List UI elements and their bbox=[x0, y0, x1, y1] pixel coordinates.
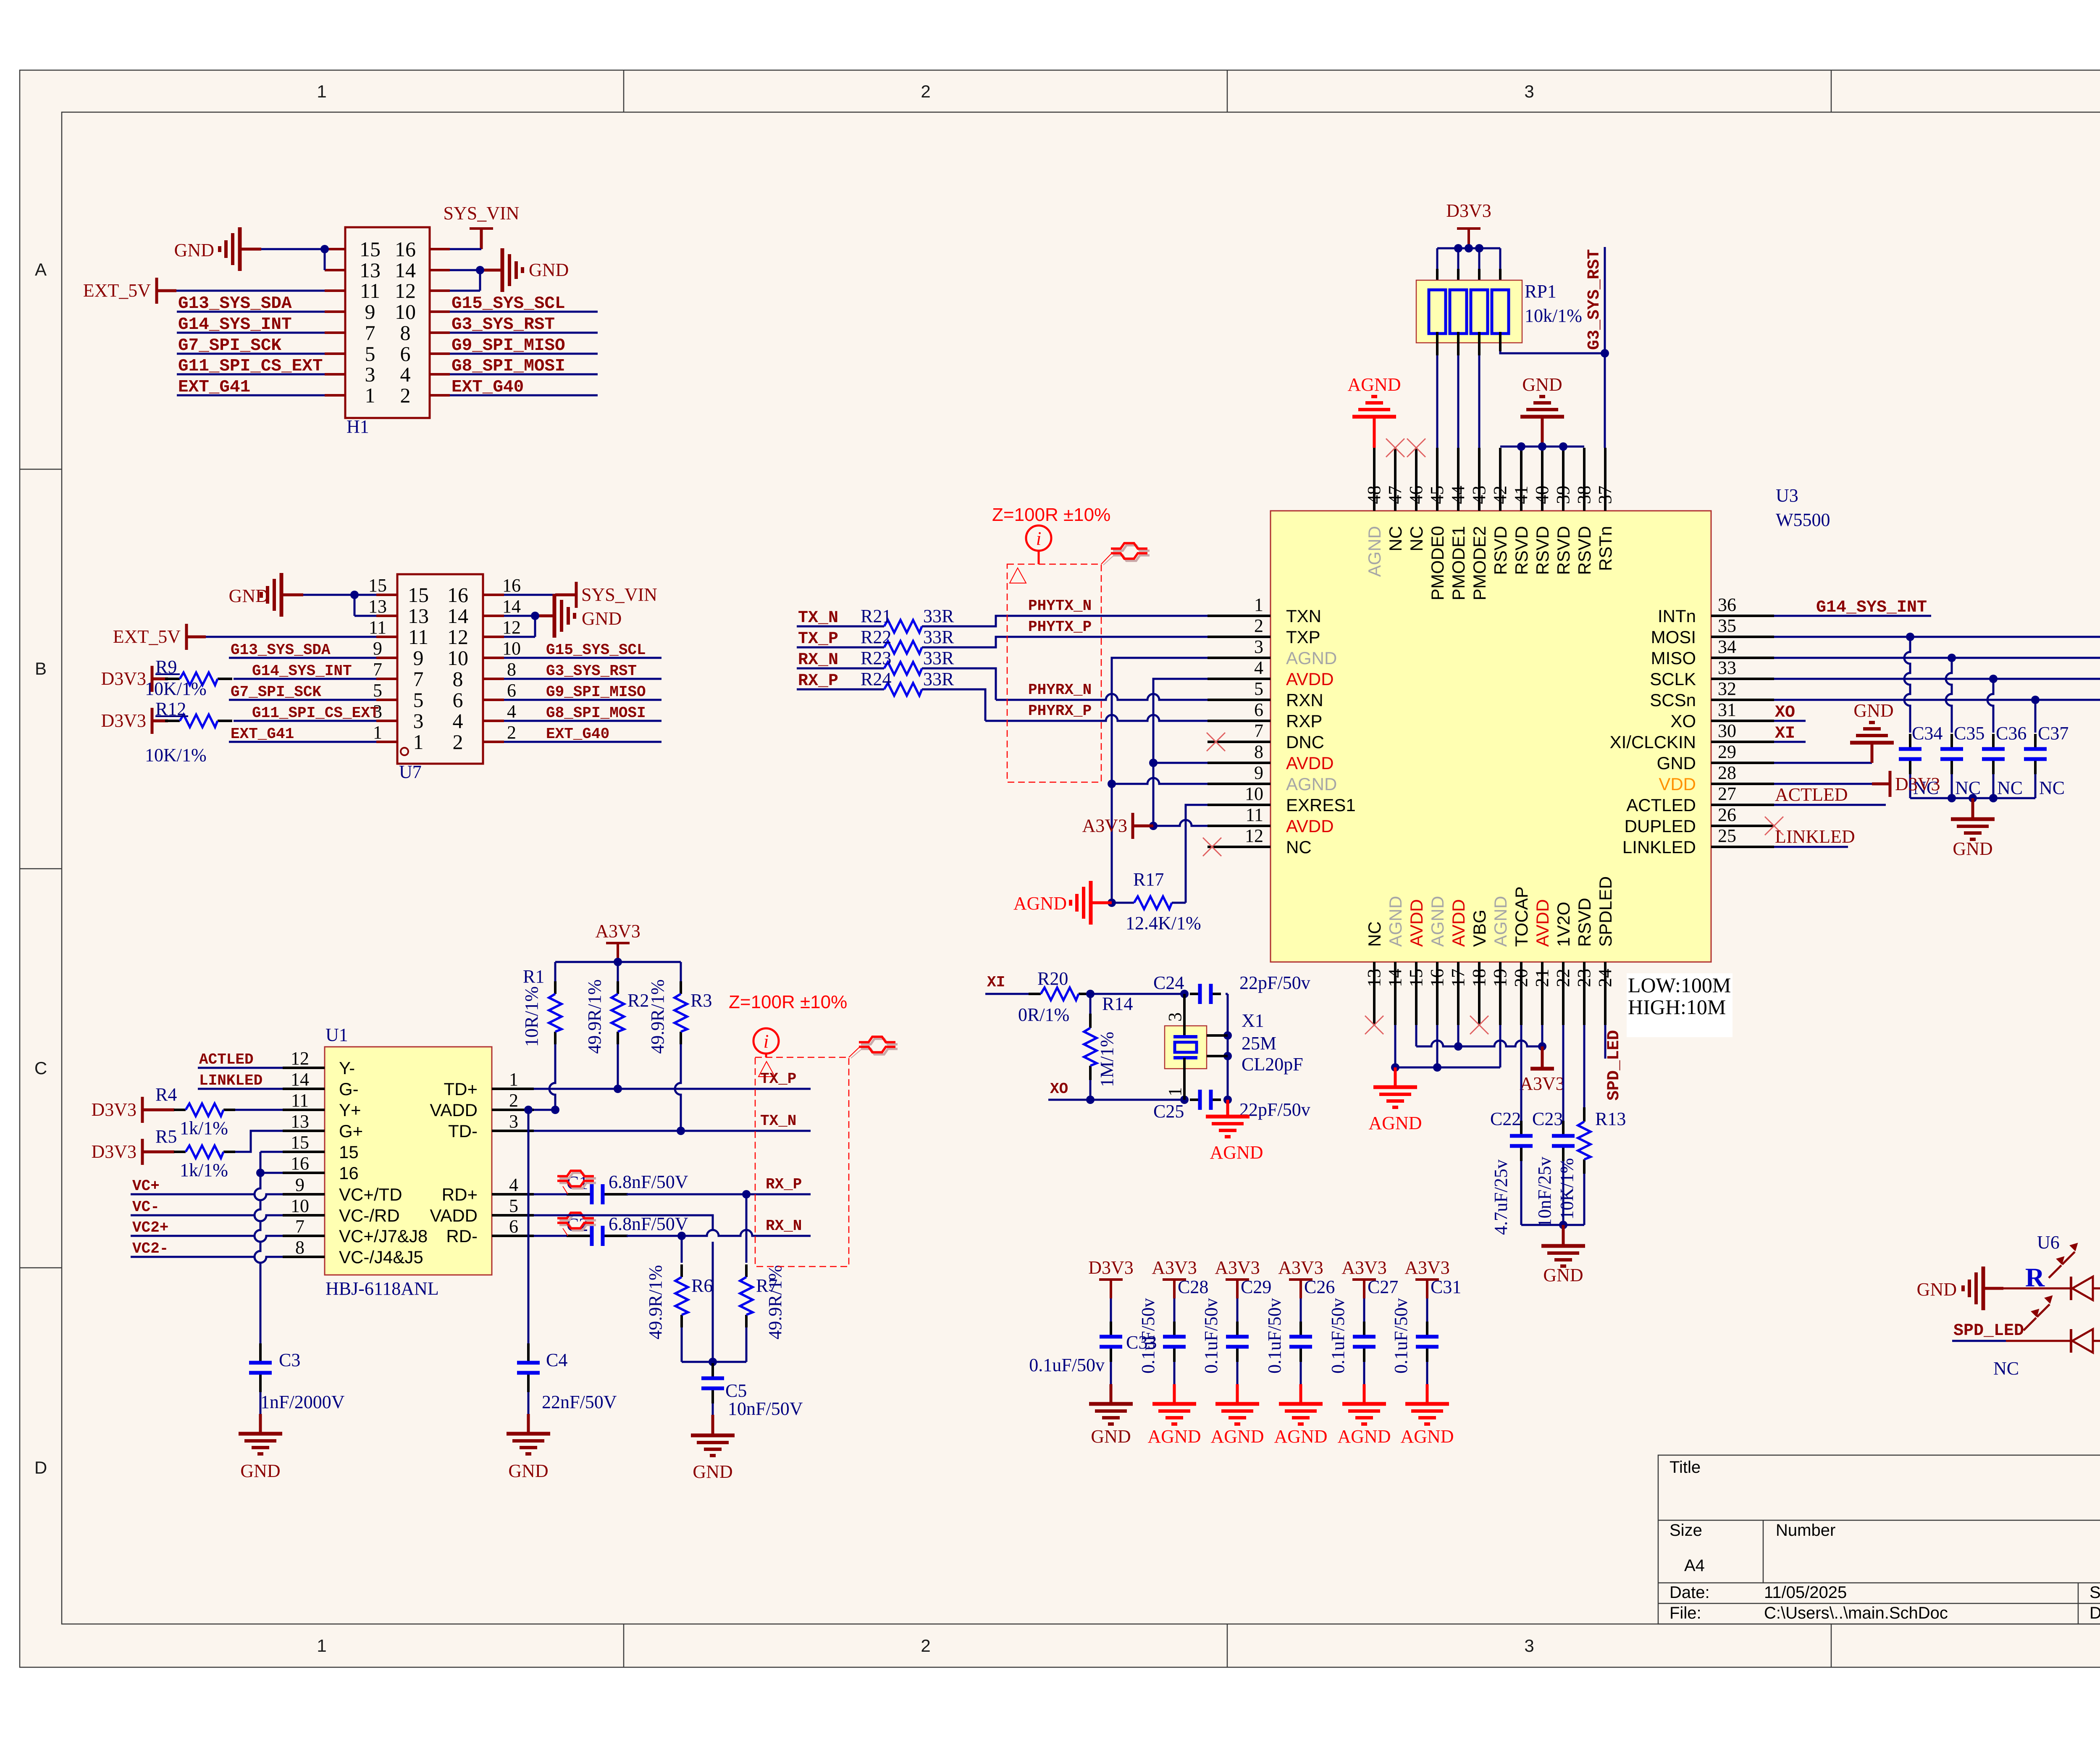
svg-text:G11_SPI_CS_EXT: G11_SPI_CS_EXT bbox=[252, 704, 379, 722]
svg-text:22pF/50v: 22pF/50v bbox=[1239, 1099, 1310, 1120]
svg-text:8: 8 bbox=[1254, 741, 1263, 762]
wire TD+ to TX_P bbox=[534, 1088, 811, 1090]
svg-text:Date:: Date: bbox=[1669, 1583, 1710, 1602]
svg-text:AGND: AGND bbox=[1365, 526, 1384, 577]
svg-text:EXT_G40: EXT_G40 bbox=[546, 725, 609, 743]
svg-text:42: 42 bbox=[1490, 486, 1510, 504]
svg-text:RSVD: RSVD bbox=[1512, 526, 1531, 575]
svg-text:AVDD: AVDD bbox=[1449, 899, 1468, 947]
svg-text:G13_SYS_SDA: G13_SYS_SDA bbox=[231, 641, 331, 659]
svg-text:4: 4 bbox=[453, 709, 463, 733]
svg-text:ACTLED: ACTLED bbox=[199, 1051, 254, 1068]
wire A3V3 bus bbox=[555, 961, 681, 963]
svg-text:C24: C24 bbox=[1153, 972, 1184, 993]
svg-text:R24: R24 bbox=[861, 669, 891, 689]
svg-text:22nF/50V: 22nF/50V bbox=[542, 1392, 617, 1412]
svg-text:GND: GND bbox=[1657, 753, 1696, 773]
resistor R23 33R bbox=[797, 667, 884, 670]
capacitor C31 0.1uF/50v bbox=[1426, 1298, 1428, 1322]
svg-text:TX_N: TX_N bbox=[760, 1112, 796, 1130]
svg-text:10: 10 bbox=[447, 646, 468, 670]
capacitor C33 0.1uF/50v bbox=[1110, 1298, 1112, 1322]
wire LED G anode to R16 bbox=[2093, 1340, 2100, 1342]
svg-text:TD+: TD+ bbox=[444, 1079, 478, 1099]
svg-text:4: 4 bbox=[1254, 657, 1263, 678]
svg-text:C3: C3 bbox=[279, 1350, 300, 1370]
svg-text:C23: C23 bbox=[1532, 1109, 1563, 1129]
svg-text:GND: GND bbox=[1853, 700, 1893, 721]
resistor network RP1 10k/1% bbox=[1416, 280, 1522, 343]
svg-text:AGND: AGND bbox=[1368, 1113, 1422, 1133]
svg-text:6: 6 bbox=[509, 1216, 518, 1237]
wire SCSn row to RP3 bbox=[1774, 699, 2100, 701]
svg-text:7: 7 bbox=[295, 1216, 304, 1237]
wire/net G15_SYS_SCL at U7 right bbox=[504, 657, 661, 659]
svg-text:13: 13 bbox=[1364, 969, 1384, 987]
svg-text:GND: GND bbox=[508, 1461, 548, 1481]
svg-text:NC: NC bbox=[1993, 1358, 2019, 1379]
svg-text:INTn: INTn bbox=[1658, 606, 1696, 626]
U3 bottom pins 13-24 bbox=[1373, 962, 1375, 1025]
svg-text:3: 3 bbox=[1165, 1012, 1185, 1022]
svg-text:R20: R20 bbox=[1037, 968, 1068, 989]
svg-text:C35: C35 bbox=[1954, 723, 1984, 744]
resistor R20 0R/1% bbox=[1029, 993, 1041, 995]
svg-text:AVDD: AVDD bbox=[1286, 816, 1334, 836]
IC U3 W5500 body bbox=[1270, 511, 1711, 962]
svg-text:27: 27 bbox=[1718, 783, 1736, 804]
svg-text:XO: XO bbox=[1670, 711, 1696, 731]
wire/net EXT_G41 at H1 bbox=[177, 394, 325, 397]
svg-text:RSVD: RSVD bbox=[1491, 526, 1510, 575]
svg-text:GND: GND bbox=[1522, 374, 1562, 395]
svg-text:GND: GND bbox=[1543, 1265, 1583, 1285]
net VC- at U1 pin10 bbox=[131, 1215, 283, 1221]
svg-text:10: 10 bbox=[1245, 783, 1263, 804]
svg-text:30: 30 bbox=[1718, 720, 1736, 741]
svg-text:46: 46 bbox=[1406, 486, 1426, 504]
resistor R3 49.9R/1% bbox=[680, 962, 682, 981]
resistor R12 10K/1% bbox=[165, 720, 180, 722]
svg-text:3: 3 bbox=[1254, 636, 1263, 657]
wire XO to C25 bbox=[1090, 1099, 1184, 1101]
svg-text:RXP: RXP bbox=[1286, 711, 1322, 731]
svg-text:16: 16 bbox=[502, 575, 521, 596]
svg-text:7: 7 bbox=[365, 321, 375, 344]
net LINKLED at U1 pin14 bbox=[198, 1088, 283, 1090]
svg-text:7: 7 bbox=[413, 667, 424, 691]
svg-text:34: 34 bbox=[1718, 636, 1736, 657]
resistor R1 10R/1% bbox=[554, 962, 556, 981]
svg-text:VC2-: VC2- bbox=[132, 1240, 168, 1257]
wire/net EXT_G40 at U7 right bbox=[504, 741, 661, 743]
svg-text:12: 12 bbox=[1245, 825, 1263, 846]
svg-text:A3V3: A3V3 bbox=[1341, 1257, 1387, 1278]
svg-text:RX_P: RX_P bbox=[798, 672, 838, 691]
svg-text:LINKLED: LINKLED bbox=[1775, 826, 1855, 847]
svg-text:1k/1%: 1k/1% bbox=[180, 1118, 228, 1138]
svg-text:RSTn: RSTn bbox=[1596, 526, 1615, 571]
svg-text:0.1uF/50v: 0.1uF/50v bbox=[1138, 1298, 1158, 1374]
svg-text:C5: C5 bbox=[725, 1380, 747, 1401]
resistor R21 33R bbox=[797, 625, 884, 628]
svg-text:41: 41 bbox=[1511, 486, 1531, 504]
svg-text:13: 13 bbox=[291, 1111, 309, 1132]
svg-text:EXT_G41: EXT_G41 bbox=[231, 725, 294, 743]
svg-text:Y+: Y+ bbox=[339, 1100, 361, 1120]
svg-text:GND: GND bbox=[1917, 1279, 1957, 1300]
svg-text:U3: U3 bbox=[1776, 485, 1798, 506]
wires RP1 to PMODE pins bbox=[1436, 332, 1438, 355]
svg-text:U6: U6 bbox=[2037, 1232, 2060, 1253]
svg-text:35: 35 bbox=[1718, 615, 1736, 636]
svg-text:Sheet of: Sheet of bbox=[2089, 1583, 2100, 1602]
svg-text:R2: R2 bbox=[627, 990, 649, 1011]
U3 left pins 1-12 bbox=[1207, 615, 1270, 617]
svg-text:TX_P: TX_P bbox=[760, 1070, 796, 1088]
svg-text:10: 10 bbox=[395, 300, 416, 323]
capacitor C2 6.8nF/50V bbox=[534, 1235, 568, 1237]
power port A3V3 below AVDD bus bbox=[1541, 1046, 1544, 1069]
svg-text:2: 2 bbox=[400, 384, 411, 407]
wire / net G11_SPI_CS_EXT at U7 pin3 bbox=[234, 720, 376, 722]
svg-text:12: 12 bbox=[395, 279, 416, 302]
capacitor C24 22pF/50v bbox=[1190, 993, 1200, 995]
ground GND at U6 bbox=[1983, 1287, 2003, 1290]
svg-text:LINKLED: LINKLED bbox=[1622, 837, 1696, 857]
svg-text:C34: C34 bbox=[1912, 723, 1942, 744]
svg-text:D: D bbox=[34, 1458, 47, 1477]
svg-text:44: 44 bbox=[1448, 486, 1468, 504]
svg-text:6.8nF/50V: 6.8nF/50V bbox=[609, 1172, 688, 1192]
ground GND below C4 bbox=[528, 1392, 530, 1414]
svg-text:G8_SPI_MOSI: G8_SPI_MOSI bbox=[451, 357, 565, 376]
svg-text:XI: XI bbox=[1775, 724, 1795, 743]
power port D3V3 at R5 bbox=[141, 1139, 144, 1165]
svg-text:RD+: RD+ bbox=[442, 1185, 478, 1204]
net EXT_G41 at U7 pin1 bbox=[229, 741, 376, 743]
svg-text:2: 2 bbox=[921, 81, 930, 101]
directive circle i bbox=[1026, 526, 1051, 551]
svg-text:1: 1 bbox=[1254, 594, 1263, 615]
svg-text:NC: NC bbox=[2039, 778, 2065, 798]
svg-text:9: 9 bbox=[295, 1175, 304, 1195]
svg-text:i: i bbox=[1036, 528, 1042, 549]
svg-text:AGND: AGND bbox=[1013, 893, 1067, 914]
title block bbox=[1658, 1455, 2100, 1624]
ground GND at U7 pin15 bbox=[281, 594, 303, 597]
svg-text:EXT_5V: EXT_5V bbox=[83, 280, 151, 301]
svg-text:AVDD: AVDD bbox=[1286, 753, 1334, 773]
svg-text:AVDD: AVDD bbox=[1533, 899, 1552, 947]
resistor R5 1k/1% bbox=[174, 1151, 186, 1153]
svg-text:9: 9 bbox=[1254, 762, 1263, 783]
svg-text:7: 7 bbox=[1254, 720, 1263, 741]
svg-text:31: 31 bbox=[1718, 699, 1736, 720]
svg-text:38: 38 bbox=[1574, 486, 1594, 504]
wire EXT_5V to H1 pin11 bbox=[176, 290, 325, 292]
wire H1 pin15 to GND bbox=[261, 248, 325, 250]
svg-text:SPD_LED: SPD_LED bbox=[1953, 1322, 2024, 1340]
power port D3V3 at R12 bbox=[151, 708, 154, 734]
svg-text:G14_SYS_INT: G14_SYS_INT bbox=[1816, 598, 1927, 617]
wire MISO row to RP3 bbox=[1774, 657, 2100, 659]
svg-text:1: 1 bbox=[509, 1069, 518, 1090]
net VC2- at U1 pin8 bbox=[131, 1257, 283, 1263]
svg-text:D3V3: D3V3 bbox=[1088, 1257, 1134, 1278]
svg-text:5: 5 bbox=[373, 680, 382, 701]
svg-text:NC: NC bbox=[1365, 921, 1384, 947]
U1 right pin stubs bbox=[492, 1088, 534, 1090]
svg-text:TXN: TXN bbox=[1286, 606, 1321, 626]
svg-text:XO: XO bbox=[1050, 1080, 1068, 1098]
svg-text:8: 8 bbox=[400, 321, 411, 344]
wire/net G3_SYS_RST at U7 right bbox=[504, 678, 661, 680]
svg-text:C36: C36 bbox=[1996, 723, 2026, 744]
power port D3V3 at U3 pin28 VDD bbox=[1774, 783, 1872, 785]
svg-text:8: 8 bbox=[295, 1237, 304, 1258]
wire U1 VADD pin5 down bbox=[534, 1215, 713, 1230]
power port EXT_5V at U7 pin11 bbox=[185, 624, 188, 650]
net G3_SYS_RST vertical bbox=[1604, 247, 1606, 448]
resistor R6 49.9R/1% bbox=[681, 1236, 683, 1263]
no-connect X U3 pin7 DNC bbox=[1207, 733, 1225, 751]
svg-text:40: 40 bbox=[1532, 486, 1552, 504]
differential pair icon on C2 bbox=[559, 1215, 596, 1220]
power port A3V3 at AVDD bbox=[1131, 813, 1134, 839]
capacitor C35 NC bbox=[1946, 658, 1952, 733]
svg-text:14: 14 bbox=[291, 1069, 309, 1090]
svg-text:G-: G- bbox=[339, 1079, 359, 1099]
wire AVDD bus below U3 bbox=[1415, 1025, 1417, 1046]
svg-text:C37: C37 bbox=[2038, 723, 2068, 744]
svg-text:13: 13 bbox=[360, 258, 381, 282]
ground AGND below C31 bbox=[1426, 1384, 1429, 1404]
svg-text:1nF/2000V: 1nF/2000V bbox=[260, 1392, 345, 1412]
svg-text:RP1: RP1 bbox=[1525, 281, 1557, 302]
resistor R22 33R bbox=[797, 646, 884, 649]
svg-text:10K/1%: 10K/1% bbox=[1557, 1158, 1577, 1220]
svg-text:GND: GND bbox=[229, 586, 269, 606]
wire/net ACTLED at U3 pin27 bbox=[1774, 804, 1886, 806]
wire LED R anode to R15 bbox=[2093, 1288, 2100, 1290]
svg-text:AVDD: AVDD bbox=[1286, 669, 1334, 689]
svg-text:D3V3: D3V3 bbox=[101, 710, 146, 731]
svg-text:AGND: AGND bbox=[1347, 374, 1401, 395]
svg-text:39: 39 bbox=[1553, 486, 1573, 504]
svg-text:2: 2 bbox=[921, 1636, 930, 1656]
svg-text:R1: R1 bbox=[523, 966, 544, 987]
svg-text:0.1uF/50v: 0.1uF/50v bbox=[1391, 1298, 1411, 1374]
svg-text:RX_P: RX_P bbox=[766, 1176, 802, 1193]
svg-text:33: 33 bbox=[1718, 657, 1736, 678]
svg-text:1: 1 bbox=[413, 730, 424, 754]
svg-text:14: 14 bbox=[1385, 969, 1405, 987]
svg-text:43: 43 bbox=[1469, 486, 1489, 504]
U7 pin 1 marker bbox=[401, 748, 408, 755]
svg-text:11: 11 bbox=[408, 625, 428, 649]
svg-text:16: 16 bbox=[447, 583, 468, 607]
svg-text:W5500: W5500 bbox=[1776, 510, 1830, 530]
svg-text:TXP: TXP bbox=[1286, 627, 1320, 647]
wire R2 to TD+ bbox=[617, 1044, 619, 1089]
svg-text:VBG: VBG bbox=[1470, 909, 1489, 947]
ground AGND at R17 bbox=[1091, 901, 1112, 904]
svg-text:G9_SPI_MISO: G9_SPI_MISO bbox=[546, 683, 646, 701]
wire U1 pins 15 16 center tap bbox=[260, 1151, 283, 1153]
svg-text:RD-: RD- bbox=[446, 1226, 478, 1246]
wire R6 R7 C5 bus bbox=[682, 1361, 746, 1363]
svg-text:Size: Size bbox=[1669, 1521, 1702, 1540]
svg-text:GND: GND bbox=[693, 1461, 732, 1482]
capacitor C28 0.1uF/50v bbox=[1173, 1298, 1176, 1322]
net label XO at U3 pin31 bbox=[1774, 720, 1806, 722]
svg-text:16: 16 bbox=[1427, 969, 1447, 987]
no-connect X U3 pin12 NC bbox=[1203, 838, 1221, 856]
svg-text:1: 1 bbox=[1165, 1087, 1185, 1096]
wire / net G14_SYS_INT at U7 pin7 bbox=[234, 678, 376, 680]
wire U7 pin16 SYS_VIN bbox=[504, 594, 555, 596]
net G7_SPI_SCK at U7 pin5 bbox=[229, 699, 376, 701]
svg-text:6: 6 bbox=[400, 342, 411, 365]
svg-text:GND: GND bbox=[240, 1461, 280, 1481]
capacitor C25 22pF/50v bbox=[1190, 1098, 1200, 1101]
svg-text:R17: R17 bbox=[1133, 869, 1164, 890]
svg-text:14: 14 bbox=[447, 604, 468, 628]
svg-text:23: 23 bbox=[1574, 969, 1594, 987]
svg-text:RXN: RXN bbox=[1286, 690, 1323, 710]
directive blanket box PHY TX/RX bbox=[1007, 564, 1101, 782]
svg-text:37: 37 bbox=[1595, 486, 1615, 504]
svg-text:G13_SYS_SDA: G13_SYS_SDA bbox=[178, 294, 292, 313]
svg-text:LINKLED: LINKLED bbox=[199, 1072, 262, 1089]
U7 pin stubs bbox=[376, 594, 397, 596]
wire R1 to VADD bbox=[549, 1044, 555, 1110]
ground GND at H1 pin15 bbox=[240, 248, 261, 251]
ground GND below C3 bbox=[260, 1392, 262, 1414]
capacitor C22 4.7uF/25v bbox=[1520, 1025, 1522, 1121]
svg-text:C:\Users\..\main.SchDoc: C:\Users\..\main.SchDoc bbox=[1764, 1604, 1948, 1622]
power port SYS_VIN at H1 pin16 bbox=[470, 227, 493, 230]
svg-text:1: 1 bbox=[317, 81, 326, 101]
wire/net G13_SYS_SDA at H1 bbox=[177, 311, 325, 313]
svg-text:XO: XO bbox=[1775, 703, 1795, 722]
svg-text:PMODE2: PMODE2 bbox=[1470, 526, 1489, 600]
svg-text:C31: C31 bbox=[1431, 1277, 1461, 1297]
wire U1 VADD pin2 bbox=[534, 1109, 555, 1111]
capacitor C23 10nF/25v bbox=[1562, 1025, 1564, 1121]
svg-text:EXT_G41: EXT_G41 bbox=[178, 378, 250, 397]
wire/net G7_SPI_SCK at H1 bbox=[177, 353, 325, 355]
resistor R7 49.9R/1% bbox=[745, 1194, 748, 1263]
svg-text:PHYTX_N: PHYTX_N bbox=[1028, 597, 1092, 615]
svg-text:14: 14 bbox=[502, 596, 521, 617]
wire D3V3 bus to RP1 bbox=[1437, 247, 1500, 250]
directive circle i 2 bbox=[753, 1028, 779, 1054]
svg-text:AGND: AGND bbox=[1286, 648, 1337, 668]
svg-text:A3V3: A3V3 bbox=[1404, 1257, 1450, 1278]
svg-text:10nF/25v: 10nF/25v bbox=[1534, 1157, 1555, 1228]
svg-text:A4: A4 bbox=[1684, 1556, 1705, 1575]
wire/net G9_SPI_MISO at H1 right bbox=[450, 353, 598, 355]
svg-text:DNC: DNC bbox=[1286, 732, 1324, 752]
wire XI to C24 bbox=[1090, 993, 1184, 995]
svg-text:22pF/50v: 22pF/50v bbox=[1239, 972, 1310, 993]
svg-text:G7_SPI_SCK: G7_SPI_SCK bbox=[178, 336, 281, 355]
LED G (green) bbox=[2070, 1329, 2072, 1353]
wire RP1 to G3_SYS_RST bbox=[1499, 332, 1501, 351]
svg-text:AGND: AGND bbox=[1147, 1426, 1201, 1447]
crystal X1 case pins bbox=[1207, 1034, 1228, 1037]
svg-text:10R/1%: 10R/1% bbox=[521, 986, 542, 1047]
svg-text:PMODE0: PMODE0 bbox=[1428, 526, 1447, 600]
svg-text:VDD: VDD bbox=[1659, 774, 1696, 794]
svg-text:R14: R14 bbox=[1102, 993, 1133, 1014]
ground AGND below crystal bbox=[1226, 1100, 1229, 1117]
svg-text:VC+/TD: VC+/TD bbox=[339, 1185, 402, 1204]
svg-text:36: 36 bbox=[1718, 594, 1736, 615]
svg-text:TX_P: TX_P bbox=[798, 630, 838, 649]
svg-text:A3V3: A3V3 bbox=[1215, 1257, 1260, 1278]
svg-text:AGND: AGND bbox=[1386, 896, 1405, 947]
wire/net G11_SPI_CS_EXT at H1 bbox=[177, 373, 325, 376]
svg-text:28: 28 bbox=[1718, 762, 1736, 783]
wire RX_P jog to U3 pin6 bbox=[922, 689, 985, 721]
svg-text:3: 3 bbox=[1524, 1636, 1534, 1656]
svg-text:C25: C25 bbox=[1153, 1101, 1184, 1122]
svg-text:8: 8 bbox=[507, 659, 516, 680]
svg-text:6: 6 bbox=[453, 688, 463, 712]
svg-text:Number: Number bbox=[1776, 1521, 1835, 1540]
capacitor C26 0.1uF/50v bbox=[1300, 1298, 1302, 1322]
svg-text:10k/1%: 10k/1% bbox=[1525, 305, 1582, 326]
svg-text:15: 15 bbox=[339, 1142, 359, 1162]
svg-text:18: 18 bbox=[1469, 969, 1489, 987]
svg-text:12: 12 bbox=[291, 1048, 309, 1069]
svg-text:C26: C26 bbox=[1304, 1277, 1335, 1297]
svg-text:TX_N: TX_N bbox=[798, 609, 838, 628]
wire/net G14_SYS_INT at U3 pin36 bbox=[1774, 615, 1931, 617]
svg-text:19: 19 bbox=[1490, 969, 1510, 987]
svg-text:AGND: AGND bbox=[1210, 1426, 1264, 1447]
wire C22 C23 R13 ground bus bbox=[1521, 1224, 1584, 1226]
svg-text:49.9R/1%: 49.9R/1% bbox=[645, 1265, 666, 1339]
svg-text:SCSn: SCSn bbox=[1650, 690, 1696, 710]
svg-text:ACTLED: ACTLED bbox=[1626, 795, 1696, 815]
svg-text:13: 13 bbox=[408, 604, 429, 628]
svg-text:U7: U7 bbox=[399, 762, 422, 782]
ground GND at U3 pin29 bbox=[1774, 762, 1872, 764]
svg-text:B: B bbox=[35, 659, 47, 678]
svg-text:6: 6 bbox=[1254, 699, 1263, 720]
svg-text:GND: GND bbox=[529, 260, 569, 280]
svg-text:0.1uF/50v: 0.1uF/50v bbox=[1264, 1298, 1285, 1374]
svg-text:1V2O: 1V2O bbox=[1554, 902, 1573, 947]
wire TX_N jog to U3 pin1 bbox=[922, 616, 1207, 626]
wire GND to LED R bbox=[2003, 1288, 2071, 1290]
svg-text:PMODE1: PMODE1 bbox=[1449, 526, 1468, 600]
svg-text:33R: 33R bbox=[923, 627, 954, 647]
svg-text:15: 15 bbox=[291, 1132, 309, 1153]
svg-text:0R/1%: 0R/1% bbox=[1018, 1004, 1069, 1025]
svg-text:G9_SPI_MISO: G9_SPI_MISO bbox=[451, 336, 565, 355]
wire capacitor ground bus bbox=[1910, 797, 2035, 799]
svg-text:Drawn By:: Drawn By: bbox=[2089, 1604, 2100, 1622]
svg-text:26: 26 bbox=[1718, 804, 1736, 825]
svg-text:VC-/RD: VC-/RD bbox=[339, 1206, 400, 1225]
svg-text:2: 2 bbox=[509, 1090, 518, 1111]
svg-text:15: 15 bbox=[368, 575, 387, 596]
